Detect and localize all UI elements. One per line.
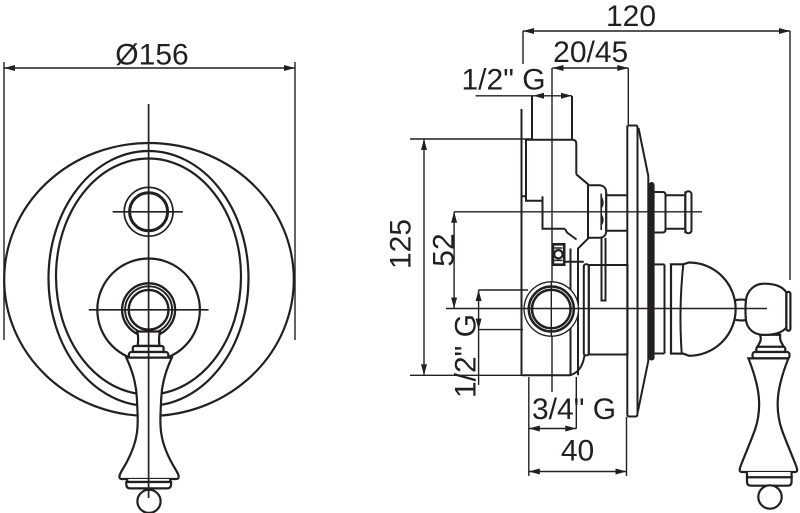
svg-text:125: 125	[385, 219, 418, 269]
svg-text:1/2" G: 1/2" G	[462, 64, 546, 97]
svg-text:20/45: 20/45	[553, 36, 628, 69]
svg-text:Ø156: Ø156	[115, 39, 188, 72]
svg-text:40: 40	[561, 435, 594, 468]
svg-text:52: 52	[428, 233, 461, 266]
svg-text:1/2" G: 1/2" G	[449, 314, 482, 398]
svg-text:120: 120	[606, 0, 656, 33]
svg-text:3/4" G: 3/4" G	[532, 393, 616, 426]
